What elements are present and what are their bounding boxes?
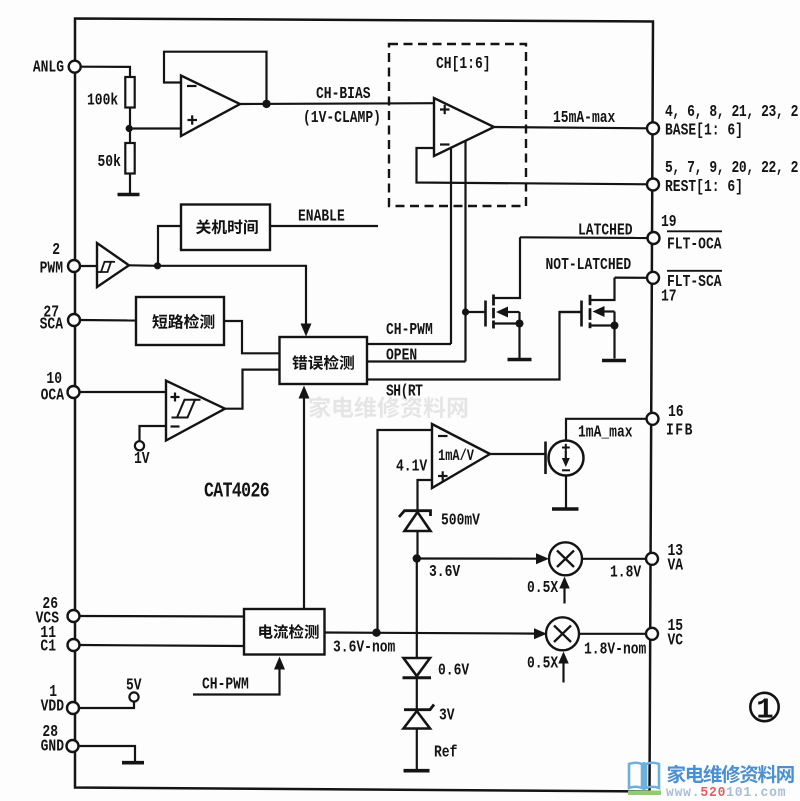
node 3.6V bbox=[413, 554, 421, 562]
wire CH-PWM into current detect bbox=[193, 667, 280, 695]
svg-text:1.8V-nom: 1.8V-nom bbox=[584, 641, 646, 659]
wire error detect bottom from current detect bbox=[303, 390, 305, 609]
svg-text:17: 17 bbox=[661, 288, 677, 306]
ground bbox=[118, 193, 140, 196]
svg-text:10: 10 bbox=[46, 371, 62, 389]
ground bbox=[508, 358, 532, 361]
pin BASE[1:6] bbox=[647, 122, 659, 134]
svg-text:Ref: Ref bbox=[434, 744, 457, 762]
svg-text:0.5X: 0.5X bbox=[527, 655, 558, 673]
pin FLT-OCA bbox=[648, 232, 660, 244]
svg-text:CAT4026: CAT4026 bbox=[204, 479, 269, 503]
pin ANLG bbox=[69, 61, 81, 73]
wire GND to ground bbox=[79, 746, 136, 761]
block 关机时间 shutdown timer bbox=[181, 205, 270, 251]
svg-text:(1V-CLAMP): (1V-CLAMP) bbox=[303, 110, 381, 128]
svg-text:0.5X: 0.5X bbox=[527, 580, 558, 598]
pin IFB bbox=[647, 413, 659, 425]
zener D3 3V bbox=[404, 705, 434, 710]
svg-text:OCA: OCA bbox=[41, 387, 64, 405]
wire to error detect top bbox=[158, 266, 307, 331]
wire ANLG to divider bbox=[81, 67, 130, 77]
ground bbox=[122, 761, 144, 765]
pin GND bbox=[67, 740, 79, 752]
ground bbox=[404, 769, 430, 773]
wire OCA comparator to error detect bbox=[225, 370, 280, 409]
IC boundary CAT4026 bbox=[75, 19, 653, 792]
pin VC bbox=[646, 628, 658, 640]
wire U3 minus input to 3.6V-nom node bbox=[378, 430, 433, 633]
svg-text:SCA: SCA bbox=[40, 316, 63, 334]
svg-text:ANLG: ANLG bbox=[33, 59, 64, 77]
svg-text:4, 6, 8, 21, 23, 2: 4, 6, 8, 21, 23, 2 bbox=[665, 104, 799, 122]
wire bbox=[80, 391, 167, 393]
reference 1V bbox=[140, 426, 167, 441]
svg-text:VA: VA bbox=[668, 557, 684, 575]
wire ENABLE bbox=[270, 225, 378, 227]
pin FLT-SCA bbox=[647, 272, 659, 284]
node PWM output junction bbox=[129, 264, 158, 267]
svg-text:1.8V: 1.8V bbox=[610, 564, 641, 582]
watermark ghost bbox=[309, 396, 467, 418]
wire CH-PWM vertical v1 bbox=[450, 148, 452, 345]
0.5X arrow into M1 bbox=[563, 588, 565, 604]
wire Q2 source to ground bbox=[613, 326, 615, 359]
wire bbox=[129, 108, 131, 144]
block 错误检测 error detect bbox=[280, 337, 368, 384]
op-amp U2 channel driver bbox=[434, 98, 494, 156]
wire U3 out to current source bbox=[490, 453, 546, 455]
op-amp U3 1mA/V bbox=[432, 424, 490, 488]
figure mark circled 1 bbox=[750, 693, 778, 721]
svg-text:CH-PWM: CH-PWM bbox=[386, 322, 433, 340]
zener D1 500mV bbox=[399, 511, 431, 517]
wire OPEN output bbox=[367, 360, 466, 362]
wire U1 feedback loop bbox=[164, 52, 267, 104]
pin REST[1:6] bbox=[647, 179, 659, 191]
wire M2 to VC pin bbox=[579, 633, 647, 635]
svg-text:GND: GND bbox=[41, 738, 64, 756]
svg-text:ENABLE: ENABLE bbox=[298, 208, 345, 226]
multiplier M2 bbox=[546, 617, 579, 650]
ground bbox=[602, 359, 626, 362]
node Q1 gate junction bbox=[462, 308, 469, 315]
comparator U4 OCA schmitt bbox=[166, 381, 225, 441]
wire C1 to current detect bbox=[80, 645, 245, 646]
wire M1 to VA pin bbox=[582, 558, 647, 560]
pin VCS bbox=[68, 610, 80, 622]
svg-text:15mA-max: 15mA-max bbox=[553, 110, 615, 128]
svg-text:1V: 1V bbox=[134, 451, 150, 469]
schmitt buffer B1 bbox=[97, 243, 129, 287]
svg-text:5, 7, 9, 20, 22, 2: 5, 7, 9, 20, 22, 2 bbox=[665, 160, 799, 178]
svg-text:PWM: PWM bbox=[40, 260, 63, 278]
wire OPEN vertical v2 bbox=[464, 142, 466, 362]
svg-text:16: 16 bbox=[668, 404, 684, 422]
pin SCA bbox=[68, 314, 80, 326]
svg-text:OPEN: OPEN bbox=[386, 347, 417, 365]
svg-text:500mV: 500mV bbox=[441, 512, 480, 530]
svg-text:50k: 50k bbox=[98, 154, 121, 172]
svg-text:4.1V: 4.1V bbox=[396, 458, 427, 476]
svg-text:2: 2 bbox=[52, 242, 60, 260]
svg-text:LATCHED: LATCHED bbox=[578, 222, 633, 240]
svg-text:1: 1 bbox=[756, 694, 773, 727]
wire CS1 to ground bbox=[565, 476, 567, 508]
svg-text:3.6V-nom: 3.6V-nom bbox=[333, 639, 395, 657]
wire bbox=[80, 265, 97, 267]
CH[1:6] dashed block bbox=[389, 44, 526, 206]
resistor 50k bbox=[125, 143, 134, 174]
wire CH-PWM output bbox=[367, 343, 451, 345]
node 3.6V-nom junction bbox=[372, 629, 380, 637]
transistor Q2 not-latched FET bbox=[560, 311, 582, 313]
watermark site name bbox=[667, 765, 793, 784]
svg-text:VDD: VDD bbox=[41, 698, 64, 716]
wire U3 plus input / 4.1V bbox=[418, 480, 433, 507]
block 短路检测 short-circuit detect bbox=[136, 297, 224, 345]
wire SHORT output bbox=[367, 312, 582, 380]
svg-text:VC: VC bbox=[668, 632, 684, 650]
watermark book icon bbox=[629, 762, 659, 790]
svg-text:CH-PWM: CH-PWM bbox=[202, 676, 249, 694]
svg-text:3V: 3V bbox=[439, 707, 455, 725]
pin VDD bbox=[67, 702, 79, 714]
wire zener to 3.6V node bbox=[416, 531, 418, 559]
wire NOT-LATCHED to FLT-SCA bbox=[615, 277, 648, 279]
wire Ref to ground bbox=[416, 729, 418, 771]
pin VA bbox=[646, 553, 658, 565]
supply 5V bbox=[129, 692, 138, 701]
diode D2 0.6V bbox=[404, 658, 431, 676]
wire U2 feedback to REST bbox=[417, 148, 649, 184]
svg-text:FLT-OCA: FLT-OCA bbox=[667, 236, 722, 254]
svg-text:0.6V: 0.6V bbox=[438, 662, 469, 680]
svg-text:C1: C1 bbox=[40, 638, 56, 656]
pin PWM bbox=[68, 260, 80, 272]
resistor 100k bbox=[125, 77, 134, 108]
wire LATCHED to FLT-OCA bbox=[520, 236, 648, 239]
wire 50k to ground bbox=[129, 174, 131, 195]
svg-text:19: 19 bbox=[661, 214, 677, 232]
wire timer to PWM node bbox=[158, 226, 181, 266]
wire VDD to 5V bbox=[79, 702, 134, 709]
svg-text:5V: 5V bbox=[126, 677, 142, 695]
svg-text:CH[1:6]: CH[1:6] bbox=[436, 56, 491, 74]
svg-text:100k: 100k bbox=[87, 92, 118, 110]
pin C1 bbox=[68, 639, 80, 651]
svg-text:1mA/V: 1mA/V bbox=[438, 448, 475, 466]
0.5X arrow into M2 bbox=[562, 663, 564, 683]
current source CS1 1mA_max bbox=[549, 441, 584, 476]
multiplier M1 bbox=[549, 542, 582, 575]
svg-text:1mA_max: 1mA_max bbox=[578, 424, 633, 442]
pin OCA bbox=[68, 386, 80, 398]
svg-text:REST[1: 6]: REST[1: 6] bbox=[665, 179, 743, 197]
wire 3.6V to VA multiplier bbox=[417, 557, 538, 559]
wire U2 output 15mA-max to BASE bbox=[494, 127, 648, 128]
wire short detect to error detect bbox=[224, 321, 280, 353]
wire Q1 source to ground bbox=[518, 324, 520, 359]
svg-text:BASE[1: 6]: BASE[1: 6] bbox=[665, 122, 743, 140]
svg-text:www.520101.com: www.520101.com bbox=[666, 785, 786, 800]
ground bbox=[552, 507, 579, 510]
block 电流检测 current detect bbox=[244, 609, 325, 655]
svg-text:NOT-LATCHED: NOT-LATCHED bbox=[546, 257, 632, 275]
svg-text:CH-BIAS: CH-BIAS bbox=[316, 86, 371, 104]
svg-text:3.6V: 3.6V bbox=[429, 564, 460, 582]
transistor Q1 latched FET bbox=[466, 311, 486, 313]
op-amp U1 CH-BIAS bbox=[181, 76, 240, 137]
wire CH-BIAS net bbox=[240, 102, 434, 105]
wire bbox=[80, 319, 136, 322]
wire CS1 to IFB pin bbox=[566, 419, 647, 441]
wire 3.6V-nom to VC multiplier bbox=[325, 633, 539, 634]
node divider junction bbox=[126, 125, 133, 132]
wire VCS to current detect bbox=[80, 615, 245, 618]
wire bbox=[416, 678, 418, 710]
svg-text:IFB: IFB bbox=[666, 422, 694, 440]
wire junction to op-amp + bbox=[129, 127, 181, 129]
wire 3.6V node down bbox=[416, 559, 418, 658]
node U1 output junction bbox=[262, 100, 270, 108]
